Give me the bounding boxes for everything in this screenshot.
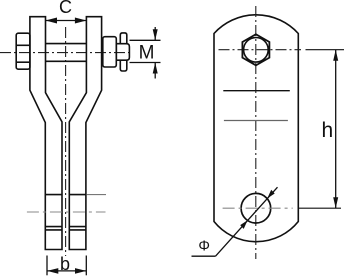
upper plate line xyxy=(223,90,289,92)
hex nut top view xyxy=(242,34,269,65)
dimension h xyxy=(322,50,339,209)
hole horizontal centerline xyxy=(223,207,293,209)
lower plate line (gray) xyxy=(224,120,288,122)
cotter pin bottom xyxy=(120,60,127,71)
right view plate outline xyxy=(214,15,298,242)
right view vertical centerline xyxy=(255,6,257,259)
bolt end xyxy=(116,44,129,61)
left view vertical centerline xyxy=(65,27,67,256)
nut (side view) xyxy=(103,37,117,67)
bolt head xyxy=(16,33,30,69)
right strip line extension (gray) xyxy=(86,194,106,196)
dimension C xyxy=(46,0,87,24)
svg-text:C: C xyxy=(59,0,72,17)
right prong of clevis xyxy=(69,17,101,250)
cotter pin top xyxy=(120,33,127,44)
dimension b xyxy=(47,254,86,276)
bolt circle in nut xyxy=(244,38,269,63)
svg-text:h: h xyxy=(322,119,334,142)
hole centerline extension to h dimension xyxy=(299,207,341,209)
svg-text:b: b xyxy=(60,254,70,274)
h dimension extension line top xyxy=(306,49,344,51)
hole centerline left view (gray) xyxy=(27,211,106,213)
right view horizontal centerline through nut xyxy=(219,49,302,51)
dimension phi leader xyxy=(192,187,278,256)
svg-text:M: M xyxy=(139,42,155,63)
left prong of clevis xyxy=(30,17,62,250)
hole in plate xyxy=(241,193,271,223)
svg-text:Φ: Φ xyxy=(198,238,210,254)
left view horizontal centerline (bolt axis) xyxy=(0,52,132,54)
bolt shank xyxy=(46,44,104,62)
dimension M xyxy=(130,27,161,79)
